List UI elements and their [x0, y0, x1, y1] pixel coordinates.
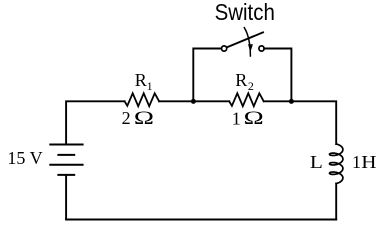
wire switch right branch (right contact to node B)	[264, 49, 291, 102]
wire bottom-left up to battery bottom	[65, 175, 67, 220]
node A junction dot	[191, 99, 196, 104]
wire R2 right to node B	[264, 100, 292, 102]
resistor R1	[125, 93, 160, 106]
battery B1 plate long	[50, 164, 82, 166]
wire inductor bottom to bottom-right corner	[335, 184, 337, 220]
wire bottom rail	[66, 219, 336, 221]
svg-text:1: 1	[232, 108, 241, 128]
svg-text:R: R	[135, 70, 147, 90]
switch blade	[227, 32, 263, 47]
wire node A to R2 left	[193, 100, 229, 102]
switch left contact	[222, 46, 227, 51]
svg-text:2: 2	[122, 108, 131, 128]
inductor L (coil)	[330, 144, 343, 184]
svg-text:Ω: Ω	[244, 108, 264, 129]
svg-text:1: 1	[147, 79, 153, 93]
resistor R2	[229, 93, 264, 106]
wire R1 right to node A	[159, 100, 193, 102]
wire switch left branch (node A up and right)	[193, 49, 221, 102]
svg-text:L: L	[310, 152, 323, 172]
svg-text:R: R	[235, 70, 247, 90]
wire node B to top-right corner down to inductor top	[291, 101, 336, 144]
svg-text:Switch: Switch	[215, 0, 275, 25]
svg-text:2: 2	[248, 79, 254, 93]
svg-text:Ω: Ω	[134, 108, 154, 129]
svg-text:1: 1	[352, 152, 361, 172]
svg-text:15 V: 15 V	[7, 148, 42, 168]
battery B1 plate long top	[50, 144, 82, 146]
node B junction dot	[289, 99, 294, 104]
svg-text:H: H	[361, 153, 376, 172]
switch arrowhead	[248, 44, 253, 52]
wire top-left segment (battery top to R1 left)	[66, 101, 125, 144]
switch right contact	[259, 46, 264, 51]
battery B1 plate short bottom	[58, 174, 74, 176]
battery B1 plate short	[58, 154, 74, 156]
switch actuation arrow	[244, 28, 250, 56]
